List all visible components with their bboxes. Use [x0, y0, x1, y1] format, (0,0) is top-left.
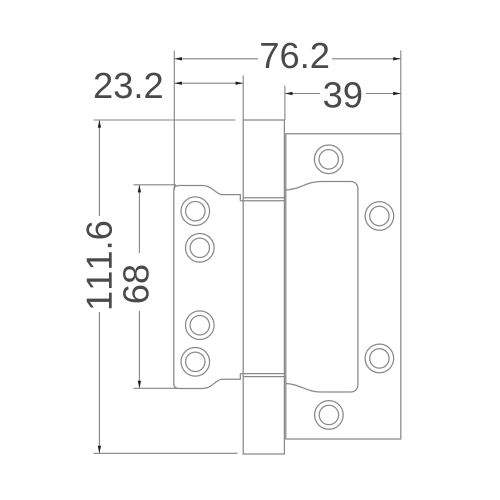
dim line 68 [138, 185, 140, 388]
arrow 39 right [393, 92, 400, 95]
extension line bottom horizontal y=453.3 [94, 452, 238, 454]
left leaf hole 4 [181, 348, 210, 377]
label 76.2 [261, 43, 328, 69]
extension line top horizontal y=120 [94, 119, 236, 121]
extension line left vertical x=174 [173, 51, 175, 191]
arrow 23.2 left [175, 82, 182, 85]
arrow 111.6 down [98, 446, 101, 453]
right leaf hole 2 [365, 202, 394, 231]
extension line x=285 [284, 86, 286, 121]
label 23.2 [95, 73, 162, 99]
dim line 111.6 [98, 120, 100, 453]
text mask 76.2 [258, 42, 332, 69]
label 111.6 [86, 222, 112, 308]
right leaf plate [286, 134, 401, 439]
arrow 111.6 up [98, 120, 101, 127]
leaf fold line bottom B [243, 376, 286, 378]
label 39 [324, 82, 361, 108]
left leaf outline [174, 186, 241, 389]
dim line 39 [285, 93, 401, 95]
arrow 68 down [138, 381, 141, 388]
arrow 76.2 left [175, 57, 182, 60]
text mask 39 [320, 78, 366, 109]
dim line 23.2 [174, 82, 243, 84]
right leaf hole 4 [315, 401, 344, 430]
right leaf hole 3 [365, 344, 394, 373]
leaf fold line top A [240, 200, 285, 202]
extension line 68 top [134, 184, 177, 186]
knuckle strip [243, 120, 284, 454]
arrow 39 left [285, 92, 292, 95]
right leaf hole 1 [314, 145, 343, 174]
label 68 [123, 265, 149, 302]
arrow 68 up [138, 185, 141, 192]
arrow 76.2 right [393, 57, 400, 60]
left leaf hole 1 [181, 197, 210, 226]
leaf fold line top B [243, 197, 286, 199]
left leaf hole 3 [186, 311, 215, 340]
text mask 68 [120, 253, 151, 311]
leaf fold line bottom A [240, 373, 285, 375]
left leaf hole 2 [186, 234, 215, 263]
extension line x=243 [242, 76, 244, 121]
extension line right vertical x=401 [400, 51, 402, 134]
text mask 111.6 [84, 216, 115, 312]
extension line 68 bottom [134, 387, 179, 389]
arrow 23.2 right [236, 82, 243, 85]
dim line 76.2 [174, 58, 400, 60]
right leaf inner cutout contour [286, 182, 358, 393]
